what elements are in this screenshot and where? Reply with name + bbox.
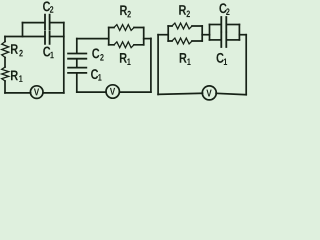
resistor R2 (circuit 1) zigzag (2, 42, 9, 58)
wire: circuit3 C-box top branch left stub (210, 24, 221, 26)
label R2 (circuit 3) (179, 5, 186, 15)
wire: circuit1 left edge lower (4, 81, 6, 93)
wire: circuit3 R-box bottom branch stubs (168, 40, 202, 42)
capacitor C2 (circuit 3) plates (221, 17, 226, 32)
label V inside meter (circuit 3) (206, 90, 211, 97)
label R2 (circuit 1) (11, 44, 18, 54)
label V inside meter (circuit 2) (110, 88, 115, 95)
wire: circuit2 capacitor branch upper (76, 39, 78, 53)
wire: circuit1 bottom wire left of V (5, 92, 31, 94)
wire: circuit1 top wire right of C1 (51, 36, 64, 38)
wire: circuit2 top wire right (144, 38, 151, 40)
label R1 (circuit 2) (120, 53, 127, 63)
wire: circuit3 top wire into R-box (158, 34, 168, 36)
label C2 (circuit 1) (43, 1, 50, 11)
wire: circuit1 top wire left of C1 (5, 36, 44, 38)
wire: circuit2 right edge (150, 38, 152, 92)
wire: circuit3 R-box left vertical (167, 26, 169, 41)
resistor R2 (circuit 2) zigzag (114, 25, 134, 31)
label C1 (circuit 1) (43, 47, 50, 57)
wire: circuit3 left edge (157, 35, 159, 95)
wire: circuit2 R-box bottom branch stubs (109, 44, 144, 46)
wire: circuit1 left edge middle (4, 58, 6, 68)
resistor R1 (circuit 2) zigzag (114, 42, 134, 48)
wire: circuit2 bottom wire right of V (120, 91, 151, 93)
wire: circuit2 bottom wire left of V (77, 91, 106, 93)
wire: circuit2 top wire left (77, 38, 109, 40)
wire: circuit2 R-box top branch stubs (109, 27, 144, 29)
capacitor C2 (circuit 2) plates (68, 54, 86, 59)
wire: circuit3 link between boxes (202, 34, 209, 36)
wire: circuit1 left edge upper (4, 37, 6, 42)
resistor R1 (circuit 3) zigzag (172, 38, 192, 44)
wire: circuit2 R-box right vertical (143, 28, 145, 45)
label C2 (circuit 2) (92, 48, 99, 58)
capacitor C1 (circuit 3) plates (221, 33, 226, 47)
wire: circuit2 capacitor branch middle (76, 60, 78, 67)
label R1 (circuit 1) (11, 71, 18, 81)
label C2 (circuit 3) (219, 3, 226, 13)
wire: circuit3 bottom wire right of V (216, 93, 246, 94)
wire: circuit3 C-box right vertical (238, 25, 240, 40)
resistor R1 (circuit 1) zigzag (2, 67, 9, 81)
label C1 (circuit 2) (91, 69, 98, 79)
voltmeter V circle (circuit 2) (106, 85, 119, 98)
wire: circuit3 R-box top branch stubs (168, 25, 202, 27)
wire: circuit3 C-box left vertical (209, 25, 211, 40)
wire: circuit1 parallel box left connector (22, 23, 24, 37)
wire: circuit3 C-box top branch right stub (227, 24, 239, 26)
resistor R2 (circuit 3) zigzag (172, 23, 192, 29)
wire: circuit1 box top branch left of C2 (23, 22, 45, 24)
wire: circuit3 C-box bottom branch left stub (210, 39, 221, 41)
capacitor C2 (circuit 1) plates (45, 15, 50, 30)
wire: circuit3 top wire to right edge (239, 34, 246, 36)
voltmeter V circle (circuit 3) (202, 86, 216, 100)
wire: circuit1 box top branch right of C2 (51, 22, 64, 24)
wire: circuit3 R-box right vertical (201, 26, 203, 41)
label R2 (circuit 2) (120, 5, 127, 15)
label C1 (circuit 3) (217, 53, 224, 63)
wire: circuit2 capacitor branch lower (76, 74, 78, 92)
wire: circuit3 C-box bottom branch right stub (227, 39, 239, 41)
wire: circuit1 right edge (63, 23, 65, 93)
voltmeter V circle (circuit 1) (30, 86, 43, 99)
wire: circuit1 bottom wire right of V (43, 92, 64, 94)
capacitor C1 (circuit 2) plates (68, 68, 86, 73)
label R1 (circuit 3) (180, 53, 187, 63)
wire: circuit2 R-box left vertical (108, 28, 110, 45)
wire: circuit3 bottom wire left of V (158, 93, 202, 94)
capacitor C1 (circuit 1) plates (45, 32, 50, 44)
label V inside meter (circuit 1) (34, 89, 39, 96)
wire: circuit3 right edge (245, 35, 247, 95)
